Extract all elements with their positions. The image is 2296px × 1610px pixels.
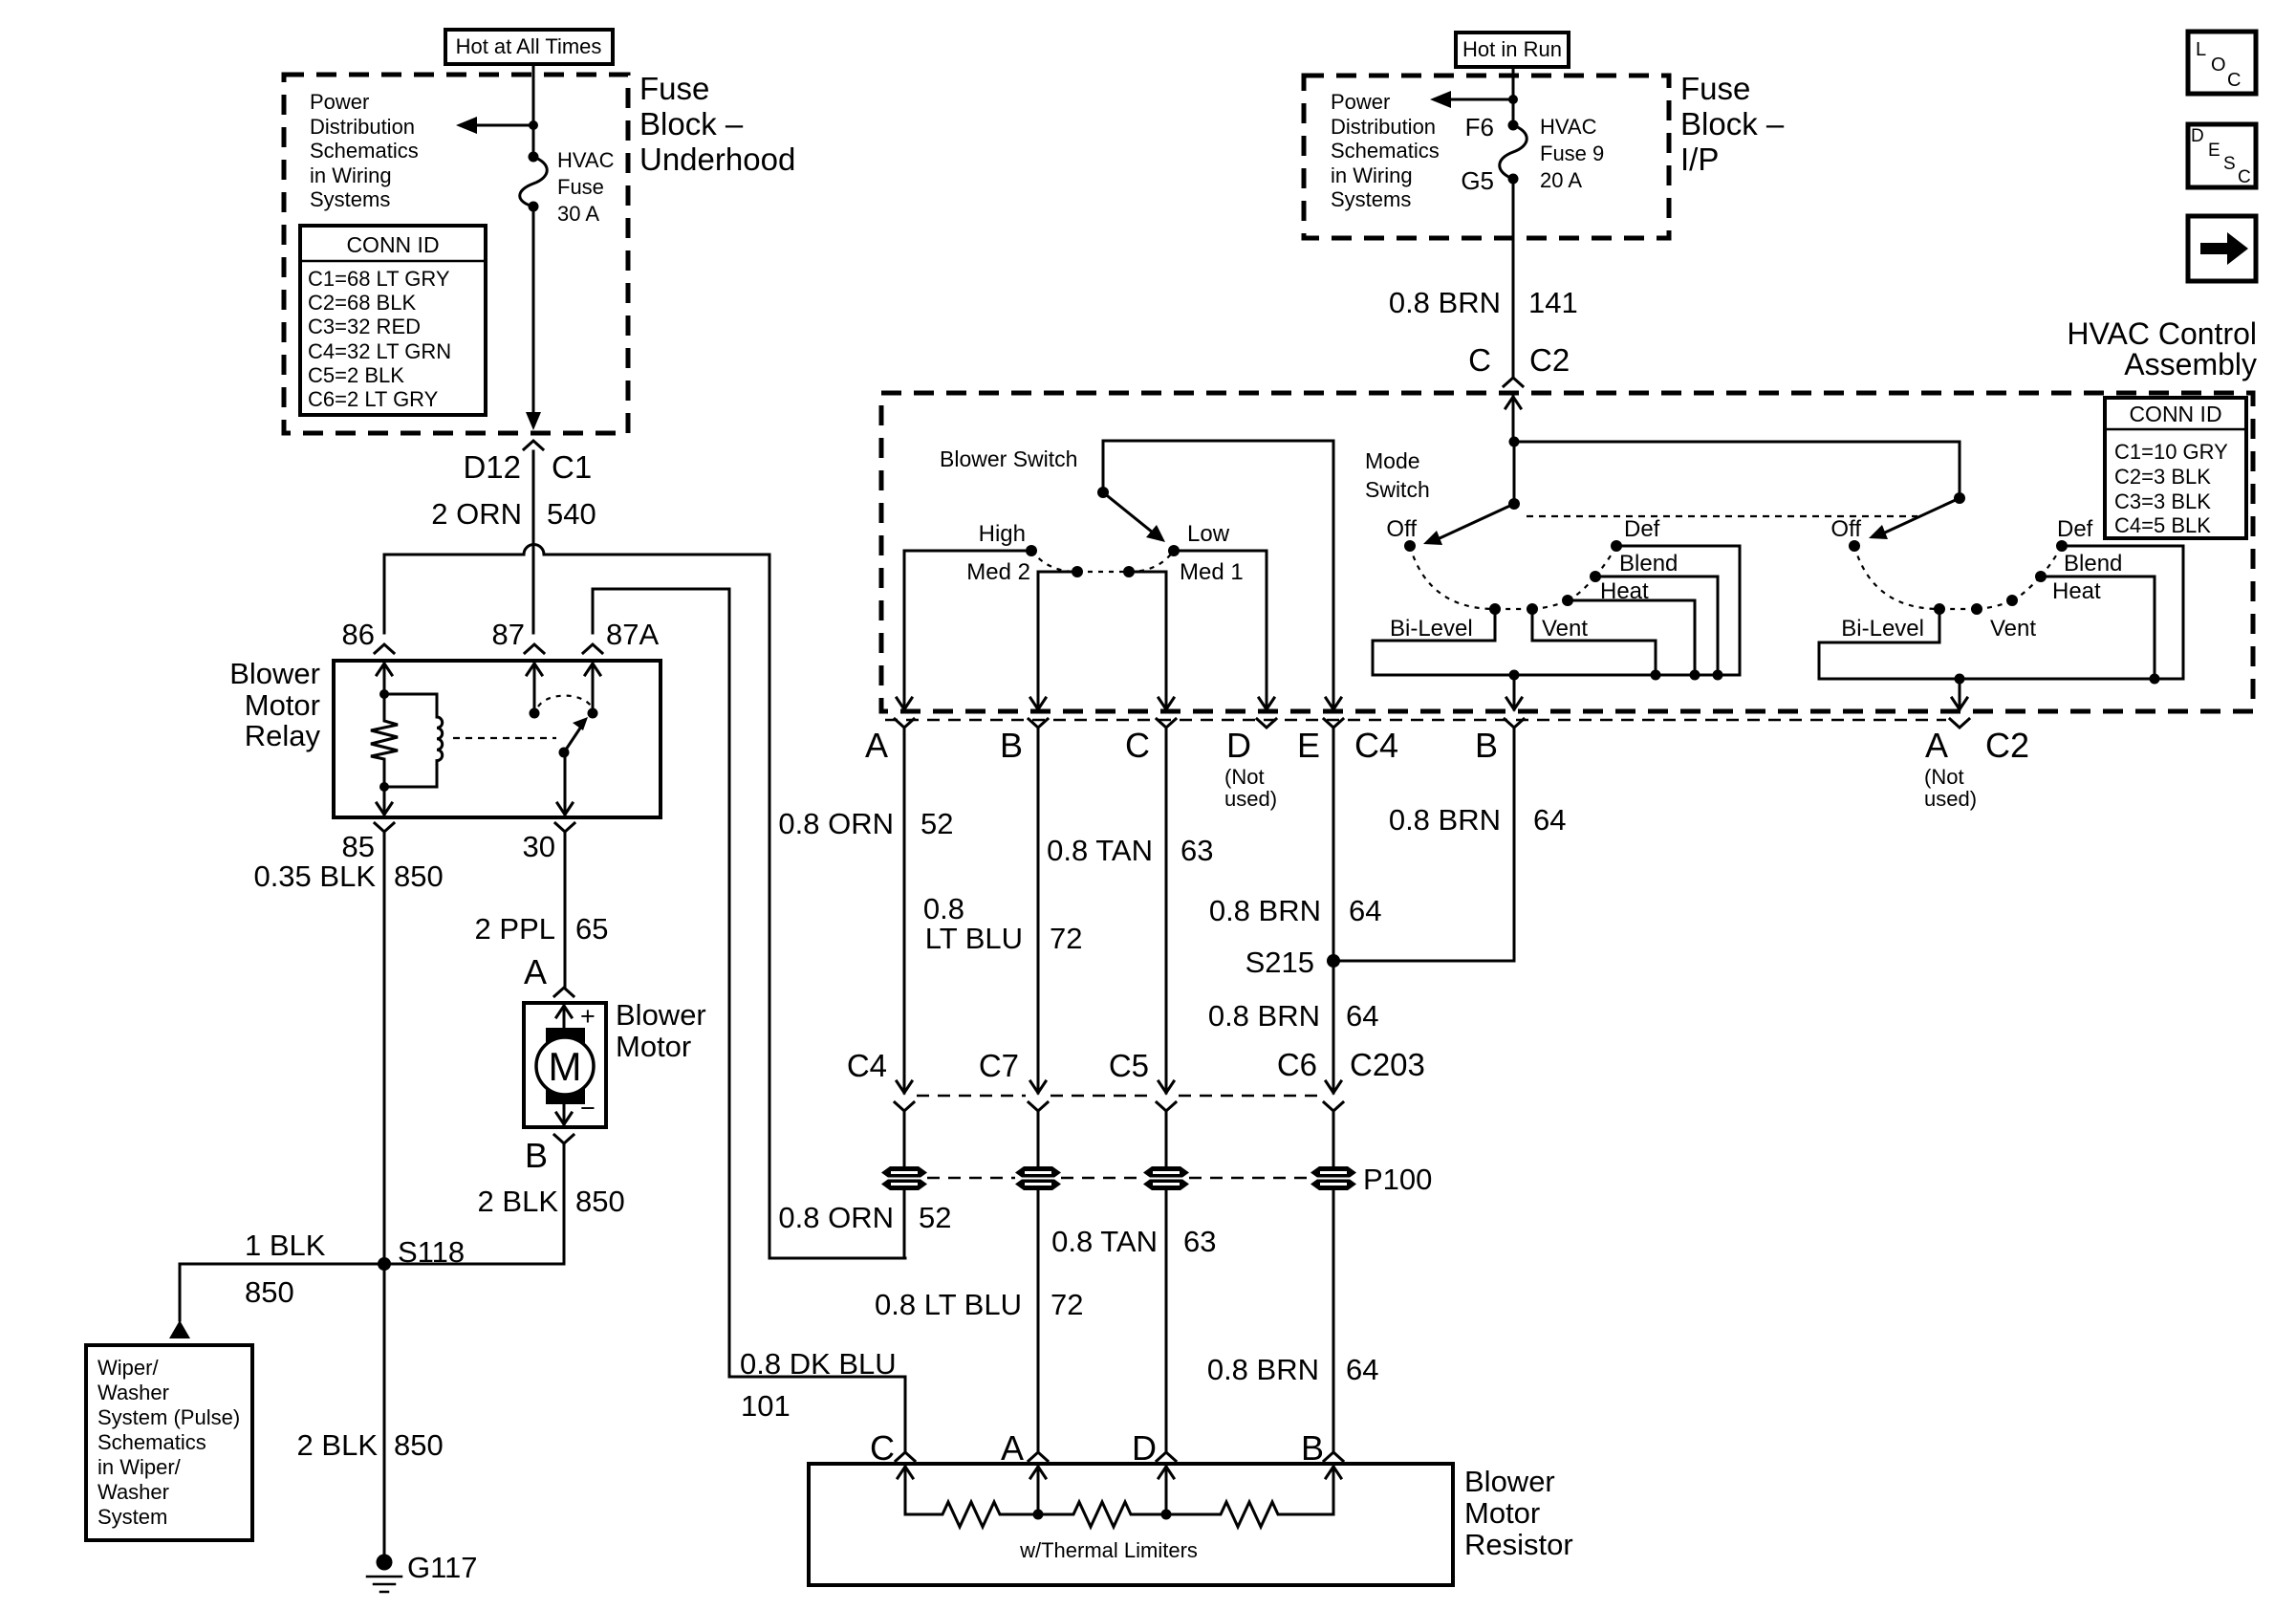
- svg-text:Fuse: Fuse: [557, 175, 604, 199]
- svg-text:C: C: [2238, 167, 2251, 187]
- connector resistor pin C: [896, 1452, 915, 1461]
- text 72 lower: [1051, 1288, 1083, 1321]
- svg-text:C3=32 RED: C3=32 RED: [308, 315, 421, 338]
- svg-text:C4: C4: [1354, 726, 1398, 765]
- connector motor pin B: [554, 1135, 574, 1143]
- svg-text:64: 64: [1346, 999, 1378, 1033]
- svg-text:540: 540: [547, 497, 596, 531]
- text 101: [741, 1389, 791, 1423]
- blower switch contact High: [1026, 545, 1037, 556]
- text A (motor pin): [524, 952, 547, 991]
- bus junction right blend: [2150, 674, 2160, 685]
- svg-text:0.8 BRN: 0.8 BRN: [1389, 286, 1501, 319]
- wire to wiper washer system: [169, 1264, 190, 1338]
- text Heat (left): [1600, 578, 1649, 604]
- inline connector arrow C: [1159, 1081, 1174, 1093]
- text pin D: [1226, 726, 1251, 765]
- svg-text:High: High: [979, 521, 1026, 547]
- svg-text:in Wiper/: in Wiper/: [97, 1455, 182, 1479]
- svg-text:72: 72: [1050, 922, 1082, 955]
- svg-text:Blend: Blend: [2064, 551, 2122, 577]
- text G117: [407, 1551, 478, 1584]
- text S118: [398, 1235, 465, 1269]
- svg-text:M: M: [549, 1044, 582, 1089]
- resistor assembly box: [809, 1464, 1453, 1585]
- wire bus to pin B: [1513, 675, 1516, 698]
- icon DESC button: [2188, 124, 2256, 187]
- fuse HVAC Fuse 9 20 A: [1500, 120, 1527, 185]
- mode left dashed arc: [1410, 546, 1616, 609]
- text Med 1: [1180, 559, 1244, 585]
- text Def (right): [2057, 516, 2093, 542]
- svg-text:2 BLK: 2 BLK: [478, 1185, 559, 1218]
- text 64 below S215: [1346, 999, 1378, 1033]
- inline connector dashed line: [917, 1095, 1321, 1098]
- splice S215: [1327, 954, 1340, 968]
- wire mode right Blend: [2041, 577, 2155, 679]
- text C (conn): [1468, 342, 1491, 378]
- wire 0.8 ORN 52 upper: [903, 728, 906, 1093]
- svg-text:used): used): [1224, 787, 1277, 811]
- wire 0.8 BRN 141: [1512, 179, 1515, 378]
- svg-text:A: A: [524, 952, 547, 991]
- wire B to P100: [1037, 1111, 1040, 1167]
- inline connector arrow A: [897, 1081, 912, 1093]
- text Fuse Block - I/P: [1680, 71, 1785, 177]
- mode switch mechanical dashed link: [1527, 515, 1917, 517]
- text resistor pin A: [1001, 1428, 1024, 1468]
- wire 2 BLK 850 (motor ground): [563, 1143, 566, 1264]
- connector resistor pin D: [1157, 1452, 1176, 1461]
- svg-text:−: −: [580, 1094, 596, 1122]
- svg-text:C: C: [1468, 342, 1491, 378]
- svg-text:D12: D12: [463, 449, 521, 485]
- arrow to Power Distribution Schematics: [456, 117, 533, 134]
- svg-text:Wiper/: Wiper/: [97, 1356, 159, 1380]
- relay K blower motor relay box: [334, 661, 661, 817]
- splice S118: [378, 1257, 391, 1271]
- wire fuse output to connector C1: [526, 207, 541, 430]
- wire blower High to pin A: [904, 551, 1031, 698]
- wire E to P100: [1332, 1111, 1335, 1167]
- connector C4 chev: [895, 1102, 914, 1111]
- svg-text:65: 65: [575, 912, 608, 946]
- text resistor pin C: [870, 1428, 895, 1468]
- text 87A: [606, 618, 659, 651]
- resistor pin A arrow: [1030, 1467, 1046, 1514]
- text S215: [1245, 946, 1314, 979]
- text Med 2: [966, 559, 1030, 585]
- hvac pin D arrow: [1259, 698, 1274, 709]
- svg-text:Bi-Level: Bi-Level: [1390, 616, 1473, 642]
- hvac pin C arrow: [1159, 698, 1174, 709]
- svg-text:C6=2 LT GRY: C6=2 LT GRY: [308, 387, 439, 411]
- grommet P100 (C wire): [1143, 1166, 1189, 1190]
- svg-text:Power: Power: [310, 90, 369, 114]
- svg-text:Fuse: Fuse: [639, 71, 709, 106]
- mode left contact Off: [1404, 540, 1416, 552]
- text HVAC Fuse 9 20 A: [1540, 115, 1604, 192]
- text 850 (motor wire): [575, 1185, 625, 1218]
- svg-text:0.8 LT BLU: 0.8 LT BLU: [875, 1288, 1022, 1321]
- svg-text:850: 850: [394, 1428, 444, 1462]
- blower switch contact Med 2: [1072, 566, 1083, 577]
- text pin B mode: [1475, 726, 1498, 765]
- svg-text:used): used): [1924, 787, 1977, 811]
- svg-text:B: B: [525, 1136, 548, 1175]
- text 52 upper: [921, 807, 953, 840]
- svg-text:S118: S118: [398, 1235, 465, 1269]
- svg-text:Motor: Motor: [245, 688, 320, 722]
- svg-text:85: 85: [342, 830, 375, 863]
- wire mode feed horizontal: [1514, 441, 1960, 444]
- connector relay pin 85: [375, 823, 394, 832]
- resistor R2 (A-D): [1038, 1502, 1166, 1527]
- text 64 E upper: [1349, 894, 1381, 927]
- svg-text:Distribution: Distribution: [310, 115, 415, 139]
- svg-text:63: 63: [1180, 834, 1213, 867]
- svg-text:D: D: [1132, 1428, 1157, 1468]
- blower switch contact Low: [1168, 545, 1180, 556]
- svg-text:B: B: [1000, 726, 1023, 765]
- svg-text:Off: Off: [1386, 516, 1417, 542]
- bus junction vent: [1651, 670, 1661, 681]
- svg-text:C203: C203: [1350, 1047, 1425, 1082]
- text 850 (1 BLK): [245, 1275, 294, 1309]
- wire 2 PPL 65: [564, 832, 567, 987]
- wire mode right Bi-Level: [1819, 609, 1939, 679]
- motor pin B arrow: [556, 1104, 572, 1124]
- wire from Hot at All Times to fuse: [532, 64, 535, 157]
- svg-text:C5=2 BLK: C5=2 BLK: [308, 363, 404, 387]
- text Blend (right): [2064, 551, 2122, 577]
- mode right dashed arc: [1854, 546, 2062, 609]
- hvac pin E arrow: [1326, 698, 1341, 709]
- blower switch dashed arc: [1031, 551, 1174, 572]
- text Mode Switch: [1365, 448, 1430, 502]
- svg-text:2 PPL: 2 PPL: [475, 912, 555, 946]
- svg-text:Block –: Block –: [639, 106, 744, 141]
- svg-text:Def: Def: [2057, 516, 2093, 542]
- svg-text:C5: C5: [1109, 1048, 1149, 1083]
- blower switch pivot: [1097, 487, 1109, 498]
- text F6: [1465, 113, 1494, 141]
- svg-text:850: 850: [394, 859, 444, 893]
- text HVAC Fuse 30 A: [557, 148, 615, 226]
- svg-text:Med 2: Med 2: [966, 559, 1030, 585]
- mode right contact Off: [1849, 540, 1860, 552]
- coil inside relay: [384, 694, 443, 787]
- text Fuse Block - Underhood: [639, 71, 795, 177]
- svg-text:63: 63: [1183, 1225, 1216, 1258]
- wire C to P100: [1165, 1111, 1168, 1167]
- text C4: [1354, 726, 1398, 765]
- connector C5 chev: [1157, 1102, 1176, 1111]
- svg-text:0.8 BRN: 0.8 BRN: [1209, 894, 1321, 927]
- svg-text:Resistor: Resistor: [1464, 1528, 1573, 1561]
- resistor junction D: [1161, 1510, 1172, 1520]
- icon LOC button: [2188, 32, 2256, 94]
- text pin A right: [1925, 726, 1948, 765]
- text Off (right): [1830, 516, 1861, 542]
- wire 0.8 TAN 63 lower: [1165, 1189, 1168, 1452]
- bus junction blend: [1713, 670, 1723, 681]
- blower switch common wire: [1103, 441, 1333, 698]
- wire mode left Blend: [1595, 577, 1718, 675]
- text 0.35 BLK: [253, 859, 376, 893]
- text 52 lower: [919, 1201, 951, 1234]
- mode switch right feed: [1959, 442, 1961, 498]
- motor armature circle: [536, 1037, 594, 1095]
- connector pin E: [1324, 719, 1343, 728]
- svg-text:2 BLK: 2 BLK: [297, 1428, 379, 1462]
- svg-text:C4=5 BLK: C4=5 BLK: [2114, 513, 2211, 537]
- resistor pin B arrow: [1326, 1467, 1341, 1514]
- svg-text:System: System: [97, 1505, 167, 1529]
- svg-text:Blend: Blend: [1619, 551, 1678, 577]
- svg-text:A: A: [1925, 726, 1948, 765]
- text pin B: [1000, 726, 1023, 765]
- wire 0.8 BRN 64 B wire: [1333, 728, 1514, 961]
- mode left contact Bi-Level: [1489, 603, 1501, 615]
- text pin A: [865, 726, 888, 765]
- fuse block underhood dashed box: [284, 75, 628, 433]
- hvac pin A2 arrow: [1952, 698, 1967, 709]
- svg-text:20 A: 20 A: [1540, 168, 1582, 192]
- svg-text:Hot at All Times: Hot at All Times: [456, 34, 602, 58]
- svg-text:C4: C4: [847, 1048, 887, 1083]
- text C2 right: [1985, 726, 2029, 765]
- mode switch left pivot: [1508, 498, 1520, 510]
- text 0.8 DK BLU: [740, 1347, 897, 1381]
- svg-text:Systems: Systems: [310, 187, 390, 211]
- svg-text:Assembly: Assembly: [2124, 347, 2257, 381]
- text P100: [1363, 1163, 1432, 1196]
- mode left contact Heat: [1562, 595, 1573, 606]
- svg-text:Schematics: Schematics: [310, 139, 419, 163]
- svg-text:Relay: Relay: [245, 719, 321, 752]
- text resistor pin B: [1301, 1428, 1324, 1468]
- wire blower Low to pin D: [1174, 551, 1267, 698]
- text 1 BLK: [245, 1229, 326, 1262]
- text 141: [1528, 286, 1578, 319]
- connector pin B: [1029, 719, 1048, 728]
- text Blower Motor (component label): [616, 998, 706, 1063]
- mode left contact Blend: [1590, 571, 1601, 582]
- wire 86 feed horizontal: [384, 555, 769, 633]
- relay pin 85 arrow: [377, 787, 392, 815]
- relay switch dashed arc: [538, 696, 591, 707]
- text C203: [1350, 1047, 1425, 1082]
- svg-text:C2=68 BLK: C2=68 BLK: [308, 291, 416, 315]
- wire 0.8 TAN 63 upper: [1165, 728, 1168, 1093]
- svg-text:Blower Switch: Blower Switch: [940, 446, 1077, 471]
- text 540: [547, 497, 596, 531]
- svg-text:B: B: [1475, 726, 1498, 765]
- motor commutator top: [546, 1028, 585, 1043]
- svg-text:O: O: [2211, 54, 2226, 76]
- text Bi-Level (right): [1841, 616, 1924, 642]
- svg-text:HVAC Control: HVAC Control: [2067, 316, 2257, 351]
- svg-text:Low: Low: [1187, 521, 1230, 547]
- bus junction B: [1509, 670, 1520, 681]
- conn id table underhood: [300, 226, 486, 415]
- text Heat (right): [2052, 578, 2101, 604]
- connector D12 C1: [524, 441, 543, 449]
- connector pin B (C4): [1505, 719, 1524, 728]
- svg-text:2 ORN: 2 ORN: [431, 497, 522, 531]
- text 0.8 BRN B: [1389, 803, 1501, 837]
- svg-text:0.8 ORN: 0.8 ORN: [778, 1201, 894, 1234]
- svg-text:87: 87: [492, 618, 525, 651]
- svg-text:B: B: [1301, 1428, 1324, 1468]
- svg-text:Schematics: Schematics: [97, 1430, 206, 1454]
- text G5: [1461, 166, 1494, 195]
- text minus: [580, 1094, 596, 1122]
- svg-text:Motor: Motor: [1464, 1496, 1540, 1530]
- mode switch right pivot: [1954, 492, 1965, 504]
- icon arrow button: [2188, 216, 2256, 281]
- relay pin 86 arrow: [377, 664, 392, 694]
- svg-text:A: A: [1001, 1428, 1024, 1468]
- motor commutator bottom: [546, 1089, 585, 1104]
- svg-text:30: 30: [523, 830, 555, 863]
- text High: [979, 521, 1026, 547]
- fuse block IP dashed box: [1304, 76, 1669, 238]
- text 0.8 upper: [923, 892, 964, 925]
- svg-text:(Not: (Not: [1924, 765, 1964, 789]
- resistor pin C arrow: [898, 1467, 913, 1514]
- resistor R3 (D-B): [1166, 1502, 1333, 1527]
- svg-text:HVAC: HVAC: [1540, 115, 1597, 139]
- relay switch contacts: [530, 708, 598, 719]
- svg-text:C3=3 BLK: C3=3 BLK: [2114, 490, 2211, 513]
- svg-text:Vent: Vent: [1542, 616, 1588, 642]
- text Bi-Level (left): [1390, 616, 1473, 642]
- inline connector arrow B: [1030, 1081, 1046, 1093]
- text 0.8 ORN lower: [778, 1201, 894, 1234]
- text C7 conn: [979, 1048, 1019, 1083]
- svg-text:I/P: I/P: [1680, 141, 1719, 177]
- motor pin A arrow: [556, 1006, 572, 1028]
- svg-text:64: 64: [1533, 803, 1566, 837]
- text Blower Motor Resistor: [1464, 1465, 1573, 1561]
- hvac pin B arrow: [1030, 698, 1046, 709]
- svg-text:C2: C2: [1529, 342, 1570, 378]
- svg-text:1 BLK: 1 BLK: [245, 1229, 326, 1262]
- text C1: [552, 449, 592, 485]
- svg-text:87A: 87A: [606, 618, 659, 651]
- text D12: [463, 449, 521, 485]
- mode left bus: [1373, 674, 1740, 677]
- label box Hot in Run: [1456, 33, 1569, 67]
- text 63 upper: [1180, 834, 1213, 867]
- mode left contact Vent: [1527, 603, 1538, 615]
- junction node on feed: [529, 120, 538, 130]
- text 86: [342, 618, 375, 651]
- blower switch arm: [1103, 492, 1165, 542]
- grommet P100 (A wire): [881, 1166, 927, 1190]
- svg-text:72: 72: [1051, 1288, 1083, 1321]
- svg-text:0.8 ORN: 0.8 ORN: [778, 807, 894, 840]
- wire 2 ORN 540: [532, 451, 535, 633]
- text 87: [492, 618, 525, 651]
- text Off (left): [1386, 516, 1417, 542]
- text Vent (left): [1542, 616, 1588, 642]
- connector pin C: [1157, 719, 1176, 728]
- text Not used (A right): [1924, 765, 1977, 811]
- relay pin 30 arrow: [557, 752, 573, 815]
- svg-text:CONN ID: CONN ID: [2129, 402, 2221, 426]
- wire bus to pin A right: [1959, 679, 1961, 698]
- arrow to power distribution (IP): [1430, 91, 1513, 108]
- svg-text:LT BLU: LT BLU: [925, 922, 1023, 955]
- label box Hot at All Times: [445, 30, 613, 64]
- relay coil-switch dashed link: [453, 737, 556, 739]
- text 850 (ground wire): [394, 1428, 444, 1462]
- svg-text:S: S: [2223, 154, 2236, 174]
- text C4 conn: [847, 1048, 887, 1083]
- svg-text:C7: C7: [979, 1048, 1019, 1083]
- text Power Distribution Schematics in Wiring Systems (left): [310, 90, 419, 211]
- svg-text:Power: Power: [1331, 90, 1390, 114]
- relay pin 87 arrow: [527, 664, 542, 713]
- text Def (left): [1624, 516, 1660, 542]
- text 0.8 BRN below S215: [1208, 999, 1320, 1033]
- text pin C: [1125, 726, 1150, 765]
- connector resistor pin A: [1029, 1452, 1048, 1461]
- wire 2 BLK 850 to ground: [383, 1264, 386, 1560]
- svg-text:C: C: [1125, 726, 1150, 765]
- text 63 lower: [1183, 1225, 1216, 1258]
- svg-text:C2: C2: [1985, 726, 2029, 765]
- wire mode right Def: [2062, 546, 2183, 679]
- hvac control assembly dashed box: [881, 393, 2253, 711]
- connector pin A: [895, 719, 914, 728]
- text Low: [1187, 521, 1230, 547]
- svg-text:Off: Off: [1830, 516, 1861, 542]
- svg-text:Def: Def: [1624, 516, 1660, 542]
- svg-text:P100: P100: [1363, 1163, 1432, 1196]
- text 0.8 BRN E upper: [1209, 894, 1321, 927]
- text 65: [575, 912, 608, 946]
- relay switch arm: [559, 717, 589, 758]
- fuse HVAC Fuse 30 A: [520, 152, 548, 212]
- svg-text:C1=10 GRY: C1=10 GRY: [2114, 440, 2228, 464]
- svg-text:in Wiring: in Wiring: [310, 163, 392, 187]
- svg-text:0.8 TAN: 0.8 TAN: [1047, 834, 1153, 867]
- text 0.8 BRN lower: [1207, 1353, 1319, 1386]
- svg-text:System (Pulse): System (Pulse): [97, 1405, 240, 1429]
- text 0.8 ORN upper: [778, 807, 894, 840]
- wire 0.8 BRN 64 E upper: [1332, 728, 1335, 1093]
- svg-text:850: 850: [575, 1185, 625, 1218]
- svg-text:52: 52: [921, 807, 953, 840]
- text 0.8 LT BLU lower: [875, 1288, 1022, 1321]
- wire 0.35 BLK 850: [383, 832, 386, 1264]
- svg-text:64: 64: [1346, 1353, 1378, 1386]
- junction node IP feed: [1508, 95, 1518, 104]
- text 850 (85 wire): [394, 859, 444, 893]
- text Blower Switch: [940, 446, 1077, 471]
- svg-text:(Not: (Not: [1224, 765, 1265, 789]
- svg-text:D: D: [1226, 726, 1251, 765]
- svg-text:Hot in Run: Hot in Run: [1462, 37, 1562, 61]
- svg-text:0.35 BLK: 0.35 BLK: [253, 859, 376, 893]
- svg-text:C: C: [870, 1428, 895, 1468]
- bus junction heat: [1690, 670, 1700, 681]
- wire 0.8 ORN drop right: [769, 555, 905, 1258]
